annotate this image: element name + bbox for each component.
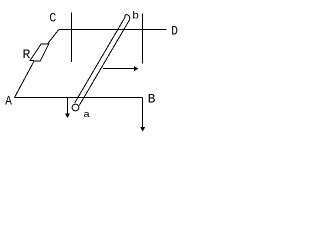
svg-text:B: B [148, 91, 156, 106]
svg-text:R: R [23, 47, 31, 62]
svg-text:C: C [49, 11, 56, 26]
svg-text:a: a [83, 111, 90, 121]
svg-text:b: b [132, 11, 139, 22]
svg-text:D: D [171, 24, 178, 39]
svg-text:A: A [5, 94, 12, 109]
